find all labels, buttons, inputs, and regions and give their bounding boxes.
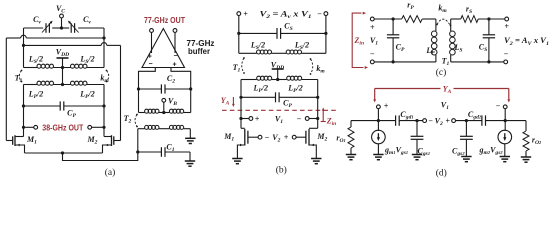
bracket YA d (373, 89, 510, 103)
wire b column left lower (240, 97, 242, 128)
label T1 c (442, 57, 450, 68)
label VC (56, 4, 65, 15)
junction b CS left (237, 32, 240, 35)
label c minus left (370, 50, 375, 59)
label km a (100, 74, 109, 85)
label d plus (384, 102, 389, 111)
junction row1 tap (61, 66, 64, 69)
label c plus right (504, 22, 509, 31)
label c V2 eq (504, 36, 549, 47)
junction c CP top (392, 17, 395, 20)
label buffer minus bottom (148, 61, 152, 68)
wire out stub left (24, 126, 34, 128)
junction B left (22, 44, 25, 47)
label 77-GHz OUT (144, 16, 185, 25)
label b V2g (272, 133, 280, 144)
bracket Zin c (352, 12, 368, 69)
label YA b (221, 96, 230, 107)
junction CP rail right (102, 104, 105, 107)
label LS c (453, 43, 462, 54)
inductor b row1 (239, 50, 326, 54)
coupling arc c (436, 19, 451, 26)
label LS/2 left a (28, 55, 43, 66)
label 77-GHz buffer (187, 39, 215, 56)
capacitor CP c (387, 19, 399, 62)
wire row2 right drop (103, 85, 105, 107)
junction C2 left (137, 87, 140, 90)
wire d rail left (351, 120, 396, 122)
terminal d V2 left (423, 119, 427, 123)
label c rP (407, 1, 414, 12)
junction c CS bottom (487, 60, 490, 63)
wire b column right lower (317, 97, 319, 128)
ground b M1 (232, 159, 242, 164)
junction VB tap (162, 111, 165, 114)
wire buf out left (151, 32, 153, 53)
coupling arc left a (19, 70, 22, 83)
label c km (438, 4, 447, 15)
label C2 (167, 74, 175, 85)
capacitor Cgs1 (411, 121, 424, 155)
label b plus top (243, 10, 248, 19)
terminal out right (88, 125, 92, 129)
label 38-GHz OUT (42, 123, 83, 132)
label Zin b (326, 117, 337, 128)
power b VDD bar (272, 69, 284, 80)
junction row2 tap (61, 83, 64, 86)
label d V2 plus (445, 117, 450, 126)
label d minus (496, 102, 501, 111)
arrow YA b (232, 97, 235, 107)
label LP/2 left a (28, 90, 44, 101)
label CP c (396, 43, 405, 54)
wire row2 left drop (23, 85, 25, 107)
label d V1 (441, 101, 449, 112)
wire VB tap (163, 102, 165, 112)
resistor rP (402, 16, 423, 23)
label YA d (443, 84, 452, 95)
wire b row2 left drop (240, 80, 242, 98)
label M2 a (87, 135, 98, 146)
terminal d minus (503, 105, 507, 109)
label gm2Vgs2 (479, 146, 504, 157)
label b LS/2 left (250, 41, 265, 52)
ground rO1 (346, 155, 356, 160)
coupling arc b right (310, 58, 313, 75)
svg-text:+: + (243, 10, 248, 19)
label T2 (124, 114, 132, 125)
svg-text:−: − (265, 133, 270, 142)
capacitor CP b (276, 92, 280, 102)
svg-text:+: + (284, 133, 289, 142)
terminal d V2 right (452, 119, 456, 123)
label CP b (283, 99, 292, 110)
wire out stub right (92, 126, 104, 128)
label b V1 (275, 114, 283, 125)
terminal c top right (505, 17, 509, 21)
inductor T2 row2 (138, 125, 191, 129)
junction b VDD tap (276, 78, 279, 81)
wire M1 gate riser (5, 38, 7, 141)
label b minus top (317, 10, 322, 19)
wire source to buffer (63, 152, 138, 161)
inductor LP c (431, 19, 437, 62)
ground C1 (185, 161, 195, 166)
wire buf out right (174, 32, 176, 53)
label C1 (166, 143, 174, 154)
coupling arc T2 (135, 114, 138, 128)
capacitor Cgd2 (482, 115, 486, 125)
svg-text:−: − (370, 50, 375, 59)
terminal b V2 left (237, 12, 241, 16)
label Cgd1 (400, 110, 413, 121)
label LP c (425, 46, 435, 57)
label b V2 eq (260, 10, 312, 21)
wire d rail right (456, 120, 482, 122)
wire b right stub top (325, 16, 327, 54)
terminal b V2g left (258, 135, 262, 139)
label b V2g plus (284, 133, 289, 142)
wire CP rail a (24, 105, 105, 107)
label (b) (276, 165, 287, 176)
svg-text:(b): (b) (276, 165, 287, 176)
junction c CS top (487, 17, 490, 20)
label b LP/2 right (287, 84, 303, 95)
current source gm2 (498, 121, 512, 157)
terminal buf out left (150, 29, 154, 33)
svg-text:+: + (172, 62, 176, 69)
wire tank column right upper (103, 28, 105, 68)
terminal c bottom right (504, 60, 508, 64)
label gm1Vgs1 (384, 146, 408, 157)
ground gm1 (373, 155, 383, 160)
ground T2 right (185, 138, 195, 143)
label b M2 (316, 132, 327, 143)
label rO1 (336, 134, 345, 145)
terminal buf out right (173, 29, 177, 33)
label CP a (67, 109, 76, 120)
svg-text:(a): (a) (105, 167, 116, 178)
wire c top rail left (374, 18, 402, 20)
label (a) (105, 167, 116, 178)
label VB (168, 97, 177, 108)
label buffer minus top (173, 53, 177, 60)
wire C1 rail (138, 152, 190, 161)
wire drain column right a (103, 106, 105, 137)
transistor b M2 (296, 128, 318, 158)
terminal out left (34, 125, 38, 129)
resistor rS (461, 16, 478, 23)
label c rS (466, 5, 472, 16)
terminal VB (162, 98, 166, 102)
wire cross-coupling A (6, 35, 104, 38)
label CS b (284, 22, 292, 33)
label c plus left (370, 23, 375, 32)
arrow Zin b (321, 108, 326, 122)
wire buf in left (139, 68, 156, 113)
capacitor Cgd1 (396, 115, 400, 125)
inductor b row2 (241, 76, 318, 80)
svg-text:−: − (148, 61, 152, 68)
resistor rO2 (523, 121, 529, 157)
junction VC tap (60, 26, 63, 29)
wire d plus drop (377, 109, 379, 121)
capacitor CP a (60, 101, 64, 110)
label CS c (479, 43, 487, 54)
label b LP/2 left (253, 84, 269, 95)
svg-text:+: + (445, 117, 450, 126)
wire T2 row2 right gnd stem (189, 129, 191, 139)
label b T1 (233, 63, 241, 74)
wire buf in right (171, 68, 191, 113)
resistor rO1 (348, 121, 354, 155)
terminal d plus (377, 105, 381, 109)
wire c bottom rail left (374, 61, 436, 63)
inductor LS c (450, 19, 456, 62)
wire b V1 stub right (309, 118, 318, 120)
label Cgs2 (452, 147, 465, 158)
wire d rail left2 (399, 120, 423, 122)
label b V1 plus (255, 114, 260, 123)
ground Cgs1 (412, 155, 422, 160)
terminal c top left (370, 17, 374, 21)
capacitor C1 (161, 147, 165, 157)
svg-text:+: + (384, 102, 389, 111)
svg-text:+: + (370, 23, 375, 32)
label CV left (33, 15, 41, 26)
current source gm1 (372, 121, 386, 155)
net dashed line b (222, 109, 338, 111)
label LP/2 right a (79, 90, 95, 101)
svg-text:−: − (317, 10, 322, 19)
coupling arc right a (106, 70, 109, 83)
coupling arc b left (242, 57, 245, 74)
transistor b M1 (237, 128, 258, 158)
svg-text:(c): (c) (436, 67, 447, 78)
junction b CS right (324, 32, 327, 35)
ground gm2 (500, 157, 510, 162)
junction A right (102, 36, 105, 39)
label (d) (436, 168, 447, 179)
junction b V1 left (239, 117, 242, 120)
wire c rs left (451, 18, 461, 20)
label d V2 (435, 117, 443, 128)
junction d n3 (465, 119, 468, 122)
wire b CS rail (239, 32, 326, 34)
junction b CP left (239, 96, 242, 99)
svg-text:buffer: buffer (188, 47, 210, 56)
wire c rs right (478, 18, 505, 20)
inductor T2 row1 (139, 109, 191, 113)
ground rO2 (521, 157, 531, 162)
wire d minus drop (504, 109, 506, 121)
junction C2 right (189, 87, 192, 90)
label c V1 (370, 36, 378, 47)
junction out right (102, 126, 105, 129)
wire c top rail right (422, 18, 436, 20)
junction b CP right (316, 96, 319, 99)
terminal b V2 right (324, 12, 328, 16)
label LS/2 right a (79, 55, 94, 66)
label (c) (436, 67, 447, 78)
inductor row2 a (24, 81, 105, 85)
transistor M1 a (6, 135, 24, 153)
junction CP rail left (22, 104, 25, 107)
wire VDD to row2 (62, 68, 64, 85)
label c minus right (504, 50, 509, 59)
wire b left stub top (238, 16, 240, 54)
label d V2 minus (428, 117, 433, 126)
label b VDD (271, 60, 284, 71)
junction C1 left (136, 150, 139, 153)
wire drain column left a (23, 106, 25, 137)
label T1 a (15, 74, 23, 85)
svg-text:−: − (297, 114, 302, 123)
inductor row1 a (24, 64, 105, 68)
junction source mid (61, 151, 64, 154)
ground Cgs2 (461, 157, 471, 162)
junction b V1 right (316, 117, 319, 120)
wire M2 gate riser (120, 45, 122, 140)
varactor CV left (42, 21, 53, 33)
op-amp 77GHz buffer (142, 29, 185, 68)
junction d n1 (377, 119, 380, 122)
wire varactor rail (24, 27, 105, 29)
svg-text:+: + (504, 22, 509, 31)
junction d n4 (504, 119, 507, 122)
svg-text:+: + (255, 114, 260, 123)
junction c CP bottom (392, 60, 395, 63)
svg-text:−: − (504, 50, 509, 59)
capacitor CS b (277, 28, 281, 39)
svg-text:77-GHz OUT: 77-GHz OUT (144, 16, 185, 25)
svg-text:(d): (d) (436, 168, 447, 179)
wire d rail right2 (486, 120, 527, 122)
junction d n2 (415, 119, 418, 122)
label CV right (83, 15, 91, 26)
transistor M2 a (103, 135, 121, 153)
label Zin c (354, 36, 365, 47)
wire C2 rail (139, 88, 191, 90)
wire b V1 stub left (241, 118, 249, 120)
wire source rail a (25, 152, 103, 154)
svg-text:−: − (496, 102, 501, 111)
terminal c bottom left (370, 60, 374, 64)
wire c bottom rail right (451, 61, 504, 63)
label buffer plus bottom (172, 62, 176, 69)
label b V2g minus (265, 133, 270, 142)
svg-text:38-GHz OUT: 38-GHz OUT (42, 123, 83, 132)
node VC supply (60, 14, 64, 28)
wire cross-coupling B (24, 43, 121, 46)
svg-text:+: + (148, 54, 152, 61)
capacitor Cgs2 (460, 121, 473, 157)
wire T2 row2 left drop (137, 129, 139, 152)
terminal b V2g right (292, 135, 296, 139)
power VDD bar a (57, 58, 69, 68)
label b LS/2 right (294, 41, 309, 52)
label buffer plus top (148, 54, 152, 61)
terminal b V1 right (305, 117, 309, 121)
ground b M2 (311, 159, 321, 164)
label b km (316, 64, 325, 75)
label VDD a (56, 48, 69, 59)
capacitor C2 (161, 84, 165, 93)
wire b CP rail (241, 96, 318, 98)
svg-text:−: − (428, 117, 433, 126)
varactor CV right (68, 21, 79, 33)
wire b row2 right drop (317, 80, 319, 98)
terminal b V1 left (249, 117, 253, 121)
label M1 a (26, 135, 37, 146)
svg-text:−: − (173, 53, 177, 60)
label rO2 (532, 136, 542, 147)
label b V1 minus (297, 114, 302, 123)
wire tank column left upper (23, 28, 25, 68)
capacitor CS c (483, 19, 495, 62)
label Cgs1 (418, 147, 431, 158)
junction out left (22, 126, 25, 129)
label Cgd2 (468, 110, 482, 121)
label b M1 (223, 132, 234, 143)
